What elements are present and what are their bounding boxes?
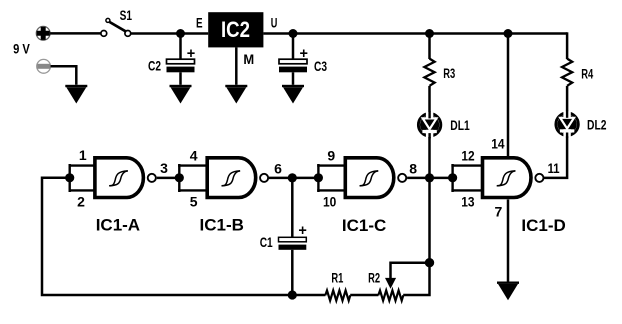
capacitor C3 xyxy=(279,34,308,85)
node junction wiper xyxy=(425,258,434,267)
wire R1 to R2 xyxy=(350,294,378,297)
wire IC2 U along top rail xyxy=(263,32,567,35)
svg-text:E: E xyxy=(196,16,203,31)
svg-text:6: 6 xyxy=(274,161,282,177)
ground (pin 7) xyxy=(497,282,519,301)
NAND gate IC1-D xyxy=(448,158,543,198)
LED DL1 xyxy=(418,111,440,138)
voltage regulator IC2 xyxy=(208,12,263,47)
node junction C3 xyxy=(289,29,298,38)
svg-text:5: 5 xyxy=(190,194,198,210)
svg-text:C1: C1 xyxy=(260,235,273,250)
svg-text:M: M xyxy=(243,52,254,67)
node junction R3 xyxy=(425,29,434,38)
NAND gate IC1-A xyxy=(65,158,156,198)
svg-text:11: 11 xyxy=(548,160,560,176)
wire pin 6 xyxy=(269,177,318,180)
ground (C3) xyxy=(282,85,304,104)
svg-text:4: 4 xyxy=(190,147,198,163)
NAND gate IC1-C xyxy=(314,158,406,198)
svg-text:IC2: IC2 xyxy=(221,17,250,42)
svg-text:DL1: DL1 xyxy=(450,118,470,133)
wire feedback from bottom rail to gate A input xyxy=(42,178,292,295)
wire switch to IC2 input xyxy=(131,32,209,35)
svg-text:S1: S1 xyxy=(120,8,133,23)
svg-text:+: + xyxy=(187,46,195,62)
svg-text:IC1-C: IC1-C xyxy=(342,216,386,235)
svg-text:+: + xyxy=(299,46,307,62)
svg-text:10: 10 xyxy=(323,194,336,210)
svg-text:C3: C3 xyxy=(314,59,327,74)
svg-text:7: 7 xyxy=(495,204,503,220)
wire pin 7 to ground xyxy=(507,200,510,282)
svg-text:9: 9 xyxy=(327,148,335,164)
wire DL1 cathode to pin 8 node xyxy=(428,137,431,178)
svg-text:IC1-A: IC1-A xyxy=(96,216,140,235)
svg-text:8: 8 xyxy=(409,161,417,177)
wire battery negative to ground xyxy=(51,66,77,85)
node junction C1 bottom xyxy=(288,290,297,299)
trimmer R2 xyxy=(378,290,403,300)
svg-text:R2: R2 xyxy=(368,270,380,285)
LED DL2 xyxy=(556,111,578,138)
ground (C2) xyxy=(170,85,192,104)
wire pin 3 xyxy=(157,177,180,180)
wire rail corner down to R4 xyxy=(566,32,569,59)
wire R2 to pin 8 node vertical xyxy=(403,178,429,295)
ground (battery) xyxy=(65,85,87,104)
svg-text:12: 12 xyxy=(461,148,474,164)
ground (IC2 M) xyxy=(225,85,247,104)
wire pin 14 from rail xyxy=(507,34,510,159)
wire pin 8 xyxy=(407,177,453,180)
svg-text:DL2: DL2 xyxy=(587,118,607,133)
wire DL2 cathode to gate D output xyxy=(544,136,567,178)
svg-text:C2: C2 xyxy=(148,59,161,74)
node junction C1 top xyxy=(288,173,297,182)
switch S1 xyxy=(101,18,131,36)
R2 wiper arrow xyxy=(385,263,430,289)
svg-text:R4: R4 xyxy=(581,66,593,81)
svg-text:R3: R3 xyxy=(443,66,455,81)
resistor R3 xyxy=(424,34,434,113)
svg-text:+: + xyxy=(298,223,306,239)
battery B1 negative terminal xyxy=(37,59,51,73)
svg-text:3: 3 xyxy=(160,160,168,176)
node junction pin 14 xyxy=(504,29,513,38)
node junction C2/E xyxy=(176,29,185,38)
svg-text:13: 13 xyxy=(461,193,474,209)
svg-text:14: 14 xyxy=(491,136,504,152)
wire IC2 M to ground xyxy=(235,47,238,84)
svg-text:R1: R1 xyxy=(331,271,343,286)
wire bottom rail to R1 xyxy=(292,294,325,297)
resistor R1 xyxy=(325,290,350,300)
svg-text:1: 1 xyxy=(79,147,87,163)
NAND gate IC1-B xyxy=(175,158,268,198)
wire battery positive to switch xyxy=(50,32,101,35)
svg-text:U: U xyxy=(271,16,278,31)
svg-text:IC1-D: IC1-D xyxy=(521,216,565,235)
battery B1 positive terminal xyxy=(36,26,50,40)
capacitor C2 xyxy=(167,34,196,85)
node junction pin 8 xyxy=(425,173,434,182)
resistor R4 xyxy=(562,59,572,112)
capacitor C1 xyxy=(279,178,307,295)
svg-text:2: 2 xyxy=(77,193,85,209)
svg-text:IC1-B: IC1-B xyxy=(200,215,244,234)
svg-text:9 V: 9 V xyxy=(13,41,30,56)
